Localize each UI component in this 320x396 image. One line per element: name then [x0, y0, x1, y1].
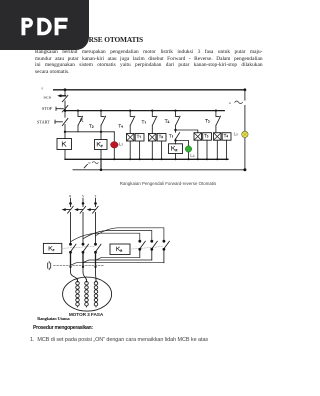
contact T1 (reverse interlock): [176, 130, 180, 141]
timer coil T3: [194, 133, 202, 141]
lamp L3 yellow: [242, 131, 248, 137]
motor winding V: [86, 280, 88, 283]
motor winding U: [77, 280, 79, 283]
contact KR pole 1: [138, 240, 141, 243]
motor winding W: [95, 280, 97, 283]
wire rail2: [65, 110, 224, 112]
junction neutral right end: [243, 168, 246, 171]
wire phase R drop: [70, 198, 72, 203]
junction node C: [174, 139, 176, 141]
coil K contactor: [57, 139, 72, 150]
junction node A left: [64, 131, 66, 133]
svg-text:R: R: [69, 194, 72, 198]
wire branch S to KR pole2: [83, 231, 152, 242]
junction overload R: [69, 266, 71, 268]
coil KR contactor: [169, 144, 183, 154]
wire motor lead U: [71, 267, 78, 281]
motor M1 body: [63, 277, 112, 311]
junction rail2 x65: [64, 109, 67, 112]
junction S top: [82, 202, 85, 205]
contact KF pole S: [82, 243, 85, 246]
wire motor lead W: [95, 267, 98, 281]
overload dashed linkage: [54, 264, 104, 266]
wire neutral rail: [73, 169, 245, 171]
svg-text:T: T: [94, 194, 96, 198]
contact K aux (holding): [77, 110, 79, 112]
junction bottom rail points: [100, 158, 228, 160]
MCB Q1 switch blade: [62, 90, 68, 106]
contact KF pole R: [69, 243, 72, 246]
wire branch R to KR pole1: [71, 233, 140, 242]
linkage KR dashed: [130, 247, 163, 250]
wire start branch: [64, 111, 66, 132]
contact KF pole T: [94, 243, 97, 246]
wire rail to neutral link: [100, 159, 102, 170]
wire KR return pole1 to T: [96, 257, 140, 260]
MCB 3-phase pole S: [77, 203, 86, 244]
timer coil T2: [149, 134, 157, 142]
wire KR return pole2 to S: [83, 260, 152, 263]
MCB 3-phase pole R: [65, 203, 74, 244]
contact T4 (timer1 branch): [129, 110, 131, 112]
junction node A right: [100, 131, 102, 133]
wire branch T to KR pole3: [96, 228, 164, 241]
lamp L2 green: [176, 141, 189, 160]
wire motor lead V: [83, 267, 87, 281]
contact T3 (timer4 branch): [215, 110, 217, 112]
junction T top: [94, 202, 97, 205]
PDF badge: [0, 0, 89, 50]
contact T1 (timer2 branch): [151, 110, 153, 112]
contactor KR coil box: [110, 244, 130, 255]
heading Rangkaian Utama: [37, 316, 69, 321]
contactor KF coil box: [43, 243, 61, 253]
linkage KF dashed: [62, 246, 95, 248]
timer coil T1: [127, 134, 135, 142]
contact KR pole 3: [163, 240, 166, 243]
wire bottom rail: [65, 158, 228, 160]
junction R top: [69, 202, 72, 205]
wire feed top rail: [54, 89, 245, 91]
MCB 3-phase pole T: [90, 203, 99, 244]
contact KR pole 2: [150, 240, 153, 243]
caption control circuit: [89, 181, 247, 186]
junction feed-right corner: [244, 88, 247, 91]
wire node B to timer3: [176, 130, 198, 133]
junction neutral mid: [100, 169, 103, 172]
paragraph: [35, 49, 263, 75]
list item 1: [30, 337, 208, 343]
wire stop to rail2: [64, 106, 66, 111]
contact T2 (to node A): [100, 110, 102, 112]
wire phase T drop: [95, 198, 97, 203]
wire phases to overload: [71, 252, 96, 267]
junction overload S: [82, 266, 84, 268]
coil KF contactor: [95, 140, 108, 150]
contact T2 (reverse branch): [174, 110, 176, 112]
source G~: [244, 90, 246, 100]
MCB Q1 arrow: [60, 95, 66, 97]
timer coil T4: [214, 133, 222, 141]
document title: [89, 35, 143, 44]
heading Prosedur: [33, 325, 93, 331]
lamp L1 red: [113, 132, 115, 160]
wire lamp L3 branch: [244, 105, 246, 169]
wire KR return pole3 to R: [71, 263, 164, 266]
wire node line A: [65, 131, 114, 133]
overload relay F: [48, 262, 51, 270]
junction node B: [174, 129, 176, 131]
junction feed-left: [64, 88, 67, 91]
caption power circuit: [64, 313, 109, 318]
wire phase S drop: [82, 198, 84, 203]
svg-text:S: S: [82, 194, 84, 198]
junction overload T: [94, 266, 96, 268]
MCB Q1 pole 2 blade: [84, 164, 87, 168]
